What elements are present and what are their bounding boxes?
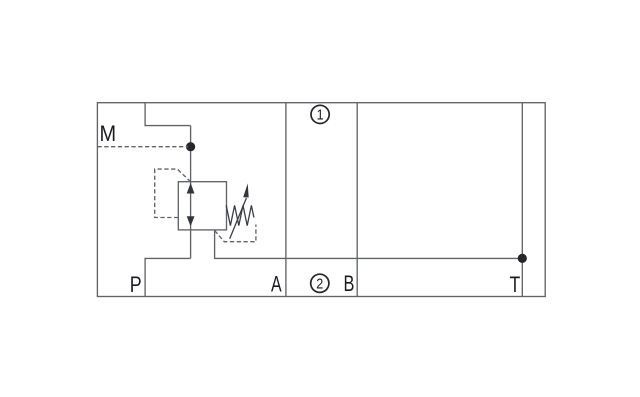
wire P channel bottom step	[145, 258, 191, 296]
svg-text:1: 1	[317, 107, 324, 123]
spring zigzag	[226, 205, 254, 225]
wire M gauge dashed line	[97, 146, 188, 148]
svg-text:A: A	[271, 273, 282, 297]
wire T channel vertical	[521, 103, 523, 297]
spring adjustment arrow shaft	[230, 198, 247, 239]
callout circle 1	[311, 105, 329, 123]
svg-text:2: 2	[316, 275, 323, 291]
section divider line 1	[285, 103, 287, 297]
wire top step channel	[145, 103, 191, 126]
drain line dashed box right	[215, 225, 256, 242]
svg-text:P: P	[130, 273, 142, 297]
valve body square	[178, 182, 226, 230]
valve flow arrow down head	[187, 216, 195, 226]
node junction dot M line	[186, 142, 195, 151]
callout circle 2	[311, 274, 329, 292]
svg-text:T: T	[510, 273, 521, 297]
wire valve outlet to T	[215, 230, 523, 259]
spring adjustment arrow head	[243, 183, 249, 197]
pilot line dashed box left	[155, 169, 191, 217]
svg-text:M: M	[100, 122, 117, 146]
section divider line 2	[356, 103, 358, 297]
subplate outer body rectangle	[97, 103, 545, 297]
valve flow arrow up head	[187, 183, 195, 194]
node junction dot T line	[518, 254, 527, 263]
wire main vertical through valve	[190, 126, 192, 259]
svg-text:B: B	[344, 273, 355, 297]
